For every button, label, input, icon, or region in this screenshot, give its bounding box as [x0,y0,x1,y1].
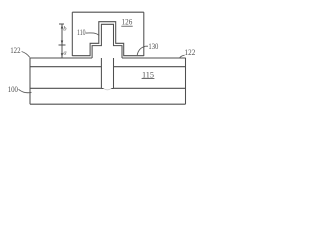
svg-text:126: 126 [122,18,133,27]
svg-text:122: 122 [10,46,20,55]
dimension mid tick [59,44,66,46]
boundary layer 115 / substrate 100 [30,87,186,89]
dimension arrow down at bottom of a [61,53,63,57]
dimension arrow down at bottom of b [61,41,63,45]
boundary layer 122 / layer 115 [30,66,186,68]
leader for 122 left [22,52,30,58]
box 126 left wall [71,12,73,56]
underline of 126 [121,25,132,27]
svg-text:100: 100 [8,85,18,94]
svg-text:110: 110 [77,28,86,37]
dimension arrow up at top of b [61,24,63,28]
plug right wall [113,58,115,89]
substrate bottom edge [30,103,186,105]
box 126 right wall [143,12,145,56]
svg-text:130: 130 [148,42,158,51]
dimension top tick [59,23,64,25]
leader for 130 [137,46,146,55]
leader for 122 right [180,55,185,57]
box 126 top edge [72,11,144,13]
leader for 110 [86,33,99,36]
substrate top surface (layer 122 top), gap at plug 110 [30,57,186,59]
liner 130 outer boundary staircase [72,22,144,56]
dimension line a segment [61,45,63,58]
fin 110 solid profile [92,24,122,58]
svg-text:122: 122 [185,48,196,57]
leader for 100 [19,89,32,92]
plug bottom faint dish [104,89,112,90]
dash of 130 [146,45,148,47]
svg-text:a: a [63,50,66,57]
dimension line b segment [61,24,63,45]
plug left wall [100,58,102,89]
svg-text:115: 115 [142,70,154,79]
substrate outer left edge [29,58,31,104]
plug bottom feet [101,88,113,90]
substrate outer right edge [185,58,187,104]
underline of 115 [142,78,155,80]
